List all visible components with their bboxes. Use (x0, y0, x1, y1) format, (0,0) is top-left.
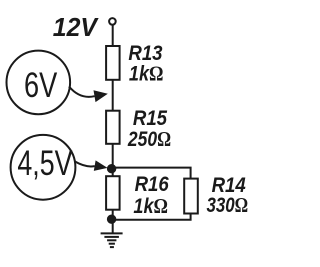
svg-text:1kΩ: 1kΩ (129, 62, 164, 86)
svg-text:1kΩ: 1kΩ (133, 194, 168, 218)
svg-text:R16: R16 (135, 173, 170, 196)
svg-text:330Ω: 330Ω (207, 194, 249, 217)
svg-text:6V: 6V (24, 66, 57, 105)
svg-text:4,5V: 4,5V (17, 143, 72, 182)
svg-text:250Ω: 250Ω (127, 127, 171, 151)
svg-text:12V: 12V (53, 14, 99, 43)
